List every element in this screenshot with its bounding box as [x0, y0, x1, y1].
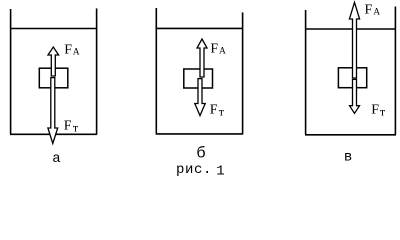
vessel 3 walls	[305, 7, 396, 135]
node water level 3	[306, 28, 396, 30]
svg-text:рис.: рис.	[176, 162, 212, 178]
arrow FT vessel 1	[48, 78, 58, 144]
svg-text:F: F	[64, 42, 72, 57]
wire	[242, 12, 244, 133]
vessel 2 walls	[156, 8, 244, 134]
svg-text:F: F	[64, 118, 72, 133]
arrow FA vessel 2	[197, 39, 207, 77]
svg-text:1: 1	[216, 163, 224, 179]
wire	[10, 133, 97, 135]
arrow FA vessel 3	[349, 2, 359, 78]
body rectangle vessel 2	[184, 69, 213, 88]
svg-text:т: т	[219, 105, 225, 119]
wire	[156, 133, 244, 135]
arrow FT vessel 3	[350, 79, 360, 113]
svg-text:F: F	[210, 42, 218, 57]
svg-text:A: A	[373, 8, 380, 18]
svg-text:F: F	[371, 102, 379, 117]
arrow FA vessel 1	[48, 47, 59, 76]
svg-text:в: в	[344, 149, 352, 165]
arrow FT vessel 2	[195, 79, 205, 116]
wire	[10, 9, 12, 134]
svg-text:т: т	[380, 105, 386, 119]
node water level 2	[156, 27, 242, 29]
svg-text:A: A	[73, 48, 80, 58]
body rectangle vessel 1	[39, 68, 68, 88]
wire	[96, 8, 98, 134]
svg-text:б: б	[196, 145, 206, 163]
wire	[305, 10, 307, 134]
svg-text:F: F	[365, 3, 373, 18]
svg-text:F: F	[210, 102, 218, 117]
wire	[394, 7, 396, 135]
wire	[155, 8, 157, 133]
svg-text:а: а	[52, 151, 60, 167]
vessel 1 walls	[10, 8, 97, 134]
wire	[305, 134, 396, 136]
svg-text:т: т	[73, 120, 79, 134]
body rectangle vessel 3	[338, 68, 366, 88]
svg-text:A: A	[219, 47, 226, 57]
node water level 1	[11, 28, 97, 30]
